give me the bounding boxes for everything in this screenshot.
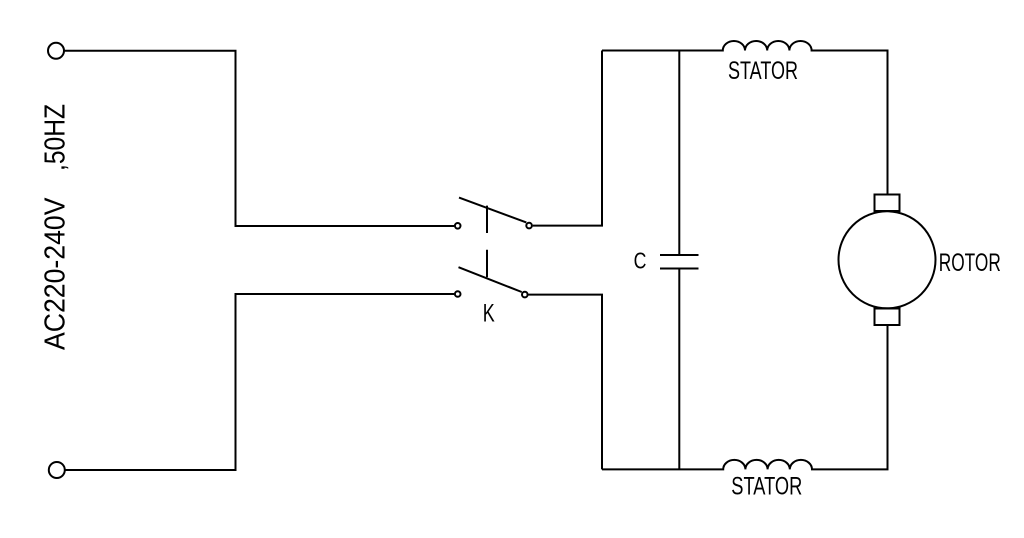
svg-text:C: C	[634, 248, 647, 274]
svg-text:K: K	[483, 299, 495, 327]
svg-text:STATOR: STATOR	[731, 473, 802, 501]
svg-text:AC220-240V: AC220-240V	[40, 197, 72, 350]
svg-text:STATOR: STATOR	[728, 57, 798, 85]
svg-text:ROTOR: ROTOR	[939, 249, 1001, 277]
svg-text:,50HZ: ,50HZ	[40, 104, 72, 171]
